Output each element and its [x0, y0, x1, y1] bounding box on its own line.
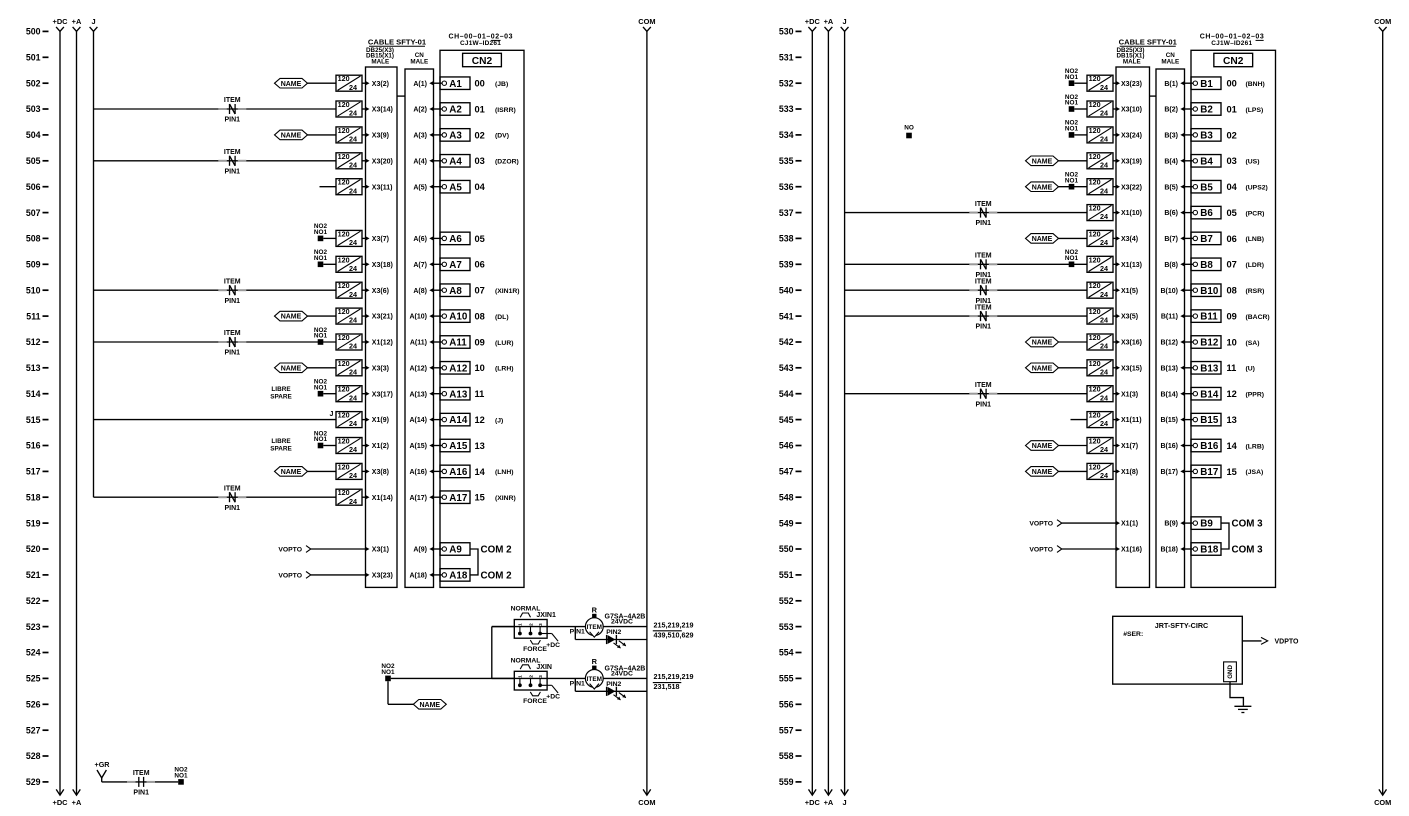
- svg-text:500: 500: [26, 27, 41, 37]
- svg-text:X3(3): X3(3): [372, 365, 389, 372]
- terminal B5 row 536: [1191, 180, 1221, 193]
- wire row 537: B(6) to terminal B6: [1185, 212, 1194, 214]
- svg-text:R: R: [592, 657, 598, 666]
- opto isolator 120/24 row 539: [1087, 255, 1113, 273]
- wire row 541: bus J to isolator: [845, 315, 1087, 317]
- svg-text:(LUR): (LUR): [495, 340, 514, 347]
- svg-text:548: 548: [779, 492, 794, 502]
- terminal A16 row 517: [440, 465, 470, 478]
- opto isolator 120/24 row 512: [336, 333, 362, 351]
- svg-text:120: 120: [338, 307, 350, 316]
- source flag VOPTO row 521: [278, 572, 310, 580]
- svg-text:B17: B17: [1200, 467, 1219, 478]
- pin A(13) row 514: [409, 391, 433, 398]
- opto isolator 120/24 row 509: [336, 255, 362, 273]
- wire row 502: A(1) to terminal A1: [434, 82, 443, 84]
- wire JXIN1 to relay coil (circuit 1): [492, 626, 586, 628]
- svg-text:X1(16): X1(16): [1121, 547, 1142, 554]
- opto isolator 120/24 row 532: [1087, 74, 1113, 92]
- link square NO2/NO1 (JXIN feed): [381, 663, 395, 681]
- svg-text:B5: B5: [1200, 182, 1213, 193]
- svg-text:509: 509: [26, 260, 41, 270]
- terminal B15 row 545: [1191, 413, 1221, 426]
- svg-text:ITEM: ITEM: [224, 330, 241, 337]
- power bus +A (left half): [72, 17, 82, 807]
- svg-text:120: 120: [338, 385, 350, 394]
- svg-text:(DL): (DL): [495, 314, 509, 321]
- opto isolator 120/24 row 503: [336, 100, 362, 118]
- wire row 545: isolator to X1(11): [1113, 419, 1116, 421]
- svg-text:537: 537: [779, 208, 794, 218]
- svg-text:NO1: NO1: [1065, 255, 1079, 262]
- wire row 542: NAME flag to isolator: [1059, 341, 1088, 343]
- svg-text:A13: A13: [449, 389, 468, 400]
- pin B(14) row 544: [1160, 391, 1184, 398]
- signal flag NAME (JXIN feed): [413, 700, 446, 710]
- svg-text:24: 24: [1100, 264, 1108, 273]
- svg-text:B(3): B(3): [1164, 133, 1178, 140]
- svg-text:A(18): A(18): [409, 573, 427, 580]
- svg-text:X3(14): X3(14): [372, 107, 393, 114]
- pin B(10) row 540: [1160, 288, 1184, 295]
- wire row 540: isolator to X1(5): [1113, 289, 1116, 291]
- svg-text:120: 120: [1089, 178, 1101, 187]
- signal flag NAME row 547: [1026, 467, 1059, 477]
- svg-text:08: 08: [475, 312, 485, 322]
- link square NO2/NO1 row 508: [314, 223, 328, 241]
- svg-text:550: 550: [779, 544, 794, 554]
- svg-text:24: 24: [349, 160, 357, 169]
- svg-text:24: 24: [1100, 83, 1108, 92]
- svg-text:559: 559: [779, 777, 794, 787]
- svg-text:439,510,629: 439,510,629: [654, 630, 694, 639]
- opto isolator 120/24 row 538: [1087, 229, 1113, 247]
- svg-text:B7: B7: [1200, 234, 1213, 245]
- svg-text:ITEM: ITEM: [975, 253, 992, 260]
- svg-text:X1(14): X1(14): [372, 495, 393, 502]
- svg-text:B(14): B(14): [1160, 391, 1178, 398]
- wire row 535: isolator to X3(19): [1113, 160, 1116, 162]
- svg-text:B(5): B(5): [1164, 184, 1178, 191]
- svg-text:24: 24: [349, 290, 357, 299]
- link square NO2/NO1 row 532: [1065, 68, 1079, 86]
- wire row 513: A(12) to terminal A12: [434, 367, 443, 369]
- svg-text:ITEM: ITEM: [224, 97, 241, 104]
- terminal B10 row 540: [1191, 284, 1221, 297]
- svg-text:X3(9): X3(9): [372, 133, 389, 140]
- svg-text:COM: COM: [1374, 798, 1391, 807]
- wire row 534: square to isolator: [1074, 134, 1087, 136]
- svg-text:24: 24: [349, 135, 357, 144]
- svg-text:120: 120: [1089, 411, 1101, 420]
- pin A(7) row 509: [413, 262, 433, 269]
- wire row 509: A(7) to terminal A7: [434, 263, 443, 265]
- svg-text:JXIN: JXIN: [536, 664, 552, 671]
- terminal A7 row 509: [440, 258, 470, 271]
- svg-text:ITEM: ITEM: [224, 149, 241, 156]
- svg-text:X3(5): X3(5): [1121, 314, 1138, 321]
- svg-text:555: 555: [779, 674, 794, 684]
- COM net vertical line (left half): [638, 17, 655, 807]
- link square NO2/NO1 row 534: [1065, 120, 1079, 138]
- svg-text:+A: +A: [824, 798, 834, 807]
- svg-text:515: 515: [26, 415, 41, 425]
- wire row 513: NAME flag to isolator: [308, 367, 337, 369]
- wire row 513: isolator to X3(3): [362, 367, 366, 369]
- svg-text:B(16): B(16): [1160, 443, 1178, 450]
- wire row 512: isolator to X1(12): [362, 341, 366, 343]
- wire row 537: bus J to isolator: [845, 212, 1087, 214]
- pin A(6) row 508: [413, 236, 433, 243]
- terminal B18 row 550: [1191, 543, 1221, 556]
- contact ITEM/PIN1 row 540: [969, 278, 997, 304]
- source flag VOPTO row 549: [1029, 520, 1061, 528]
- svg-text:558: 558: [779, 751, 794, 761]
- wire row 544: B(14) to terminal B14: [1185, 393, 1194, 395]
- cable tie between connectors (right half): [1150, 95, 1157, 97]
- svg-text:NAME: NAME: [281, 365, 302, 372]
- contact ITEM/PIN1 row 505: [218, 149, 246, 175]
- pin B(8) row 539: [1164, 262, 1184, 269]
- svg-text:516: 516: [26, 441, 41, 451]
- svg-text:+DC: +DC: [53, 798, 69, 807]
- signal flag NAME row 536: [1026, 182, 1059, 192]
- terminal A10 row 511: [440, 310, 470, 323]
- svg-text:PIN1: PIN1: [225, 168, 241, 175]
- svg-text:NO1: NO1: [1065, 100, 1079, 107]
- svg-text:120: 120: [1089, 437, 1101, 446]
- wire row 546: isolator to X1(7): [1113, 445, 1116, 447]
- contact ITEM/PIN1 row 503: [218, 97, 246, 123]
- svg-text:A(2): A(2): [413, 107, 427, 114]
- svg-text:X3(6): X3(6): [372, 288, 389, 295]
- svg-text:557: 557: [779, 725, 794, 735]
- svg-text:24: 24: [1100, 238, 1108, 247]
- svg-text:+GR: +GR: [95, 760, 111, 769]
- svg-text:10: 10: [1227, 337, 1237, 347]
- svg-text:NAME: NAME: [1032, 158, 1053, 165]
- svg-text:B(18): B(18): [1160, 547, 1178, 554]
- svg-text:(PPR): (PPR): [1246, 392, 1265, 399]
- contact ITEM/PIN1 row 518: [218, 485, 246, 511]
- svg-text:24: 24: [1100, 212, 1108, 221]
- svg-text:24: 24: [349, 393, 357, 402]
- module CJ1W-ID261 body (right half): [1191, 50, 1276, 587]
- pin B(17) row 547: [1160, 469, 1184, 476]
- svg-text:#SER:: #SER:: [1123, 631, 1143, 638]
- svg-text:NO: NO: [904, 124, 914, 131]
- svg-text:J: J: [843, 17, 847, 26]
- wire row 505: bus J to isolator: [94, 160, 337, 162]
- terminal B17 row 547: [1191, 465, 1221, 478]
- wire row 512: bus J to isolator: [94, 341, 337, 343]
- svg-text:B(17): B(17): [1160, 469, 1178, 476]
- svg-text:(LNH): (LNH): [495, 469, 514, 476]
- pin B(4) row 535: [1164, 158, 1184, 165]
- svg-text:502: 502: [26, 78, 41, 88]
- svg-text:529: 529: [26, 777, 41, 787]
- pin B(12) row 542: [1160, 340, 1184, 347]
- svg-text:VDPTO: VDPTO: [1275, 638, 1300, 645]
- svg-text:X3(22): X3(22): [1121, 184, 1142, 191]
- svg-text:A(3): A(3): [413, 133, 427, 140]
- connector body CN MALE (left half): [405, 69, 434, 587]
- svg-text:(LDR): (LDR): [1246, 262, 1265, 269]
- pin X3(14) row 503: [365, 107, 393, 114]
- svg-text:120: 120: [1089, 74, 1101, 83]
- svg-text:2: 2: [528, 675, 533, 678]
- wire row 541: isolator to X3(5): [1113, 315, 1116, 317]
- svg-text:COM 3: COM 3: [1232, 519, 1264, 530]
- svg-text:551: 551: [779, 570, 794, 580]
- svg-text:07: 07: [1227, 260, 1237, 270]
- signal flag NAME row 535: [1026, 156, 1059, 166]
- pin X3(7) row 508: [365, 236, 389, 243]
- terminal A12 row 513: [440, 362, 470, 375]
- wire row 515: A(14) to terminal A14: [434, 419, 443, 421]
- svg-text:COM: COM: [638, 798, 655, 807]
- pin B(18) row 550: [1160, 547, 1184, 554]
- svg-text:506: 506: [26, 182, 41, 192]
- svg-text:NAME: NAME: [1032, 365, 1053, 372]
- svg-text:SPARE: SPARE: [270, 394, 292, 401]
- wire row 546: NAME flag to isolator: [1059, 445, 1088, 447]
- opto isolator 120/24 row 513: [336, 359, 362, 377]
- svg-text:B(7): B(7): [1164, 236, 1178, 243]
- wire row 532: isolator to X3(23): [1113, 82, 1116, 84]
- wire row 504: isolator to X3(9): [362, 134, 366, 136]
- svg-text:A(12): A(12): [409, 365, 427, 372]
- svg-text:11: 11: [1227, 363, 1237, 373]
- pin B(16) row 546: [1160, 443, 1184, 450]
- svg-text:X3(20): X3(20): [372, 158, 393, 165]
- svg-text:A15: A15: [449, 441, 468, 452]
- svg-text:542: 542: [779, 337, 794, 347]
- svg-text:24: 24: [349, 367, 357, 376]
- wire junction vertical: [491, 627, 493, 679]
- svg-text:X1(10): X1(10): [1121, 210, 1142, 217]
- wire row 512: A(11) to terminal A11: [434, 341, 443, 343]
- svg-text:VOPTO: VOPTO: [278, 547, 302, 554]
- pin A(12) row 513: [409, 365, 433, 372]
- terminal B4 row 535: [1191, 155, 1221, 168]
- svg-text:PIN1: PIN1: [570, 680, 585, 687]
- svg-text:(LRB): (LRB): [1246, 443, 1265, 450]
- connector JXIN (circuit 2): [511, 657, 561, 704]
- svg-text:COM 3: COM 3: [1232, 545, 1264, 556]
- svg-text:24: 24: [349, 83, 357, 92]
- svg-text:553: 553: [779, 622, 794, 632]
- svg-text:X1(9): X1(9): [372, 417, 389, 424]
- svg-text:531: 531: [779, 53, 794, 63]
- svg-text:X1(8): X1(8): [1121, 469, 1138, 476]
- opto isolator 120/24 row 505: [336, 152, 362, 170]
- pin A(10) row 511: [409, 314, 433, 321]
- pin A(16) row 517: [409, 469, 433, 476]
- pin X3(5) row 541: [1116, 314, 1138, 321]
- svg-text:COM: COM: [1374, 17, 1391, 26]
- svg-text:120: 120: [1089, 333, 1101, 342]
- svg-text:525: 525: [26, 674, 41, 684]
- wire row 549: VOPTO to X1(1): [1062, 522, 1116, 524]
- svg-text:(DZOR): (DZOR): [495, 159, 519, 166]
- terminal B7 row 538: [1191, 232, 1221, 245]
- opto isolator 120/24 row 546: [1087, 437, 1113, 455]
- terminal A6 row 508: [440, 232, 470, 245]
- terminal A2 row 503: [440, 103, 470, 116]
- svg-text:NAME: NAME: [1032, 184, 1053, 191]
- svg-text:B14: B14: [1200, 389, 1219, 400]
- svg-text:B(9): B(9): [1164, 521, 1178, 528]
- pin X1(7) row 546: [1116, 443, 1138, 450]
- wire row 534: isolator to X3(24): [1113, 134, 1116, 136]
- svg-text:NO1: NO1: [1065, 126, 1079, 133]
- svg-text:527: 527: [26, 725, 41, 735]
- pin X1(12) row 512: [365, 340, 393, 347]
- svg-text:B(2): B(2): [1164, 107, 1178, 114]
- terminal A4 row 505: [440, 155, 470, 168]
- svg-text:120: 120: [338, 462, 350, 471]
- svg-text:(DV): (DV): [495, 133, 509, 140]
- wire row 547: isolator to X1(8): [1113, 470, 1116, 472]
- svg-text:A5: A5: [449, 182, 462, 193]
- wire row 505: isolator to X3(20): [362, 160, 366, 162]
- wire lower branch to COM (circuit 2): [574, 678, 576, 691]
- svg-text:526: 526: [26, 700, 41, 710]
- terminal A13 row 514: [440, 387, 470, 400]
- svg-text:B3: B3: [1200, 131, 1213, 142]
- wire row 515: isolator to X1(9): [362, 419, 366, 421]
- svg-text:X3(1): X3(1): [372, 547, 389, 554]
- svg-text:120: 120: [338, 229, 350, 238]
- wire row 517: A(16) to terminal A16: [434, 470, 443, 472]
- svg-text:PIN1: PIN1: [225, 117, 241, 124]
- svg-text:MALE: MALE: [1123, 59, 1141, 66]
- svg-text:546: 546: [779, 441, 794, 451]
- svg-text:120: 120: [1089, 359, 1101, 368]
- wire row 504: A(3) to terminal A3: [434, 134, 443, 136]
- svg-text:NO1: NO1: [1065, 74, 1079, 81]
- wire row 538: B(7) to terminal B7: [1185, 237, 1194, 239]
- svg-text:X1(7): X1(7): [1121, 443, 1138, 450]
- link square NO2/NO1 row 512: [314, 327, 328, 345]
- opto isolator 120/24 row 541: [1087, 307, 1113, 325]
- svg-text:(U): (U): [1246, 366, 1255, 373]
- svg-text:LIBRE: LIBRE: [271, 386, 291, 393]
- svg-text:539: 539: [779, 260, 794, 270]
- svg-text:A2: A2: [449, 105, 462, 116]
- wire stub row 506: [320, 186, 337, 188]
- svg-text:A(8): A(8): [413, 288, 427, 295]
- svg-text:LIBRE: LIBRE: [271, 438, 291, 445]
- svg-text:(UPS2): (UPS2): [1246, 185, 1268, 192]
- opto isolator 120/24 row 518: [336, 488, 362, 506]
- svg-text:(LPS): (LPS): [1246, 107, 1264, 114]
- terminal B16 row 546: [1191, 439, 1221, 452]
- connector CABLE SFTY-01 header (right half): [1117, 38, 1178, 66]
- wire row 516: A(15) to terminal A15: [434, 445, 443, 447]
- wire row 503: isolator to X3(14): [362, 108, 366, 110]
- svg-text:A(9): A(9): [413, 547, 427, 554]
- link square NO2/NO1 row 509: [314, 249, 328, 267]
- svg-text:NAME: NAME: [281, 314, 302, 321]
- wire row 510: A(8) to terminal A8: [434, 289, 443, 291]
- pin X3(10) row 533: [1116, 107, 1142, 114]
- svg-text:A10: A10: [449, 312, 468, 323]
- svg-text:507: 507: [26, 208, 41, 218]
- wire row 538: NAME flag to isolator: [1059, 237, 1088, 239]
- svg-text:(LRH): (LRH): [495, 366, 514, 373]
- wire row 511: isolator to X3(21): [362, 315, 366, 317]
- contact ITEM/PIN1 row 510: [218, 278, 246, 304]
- pin X3(9) row 504: [365, 133, 389, 140]
- svg-text:541: 541: [779, 311, 794, 321]
- opto isolator 120/24 row 533: [1087, 100, 1113, 118]
- svg-text:536: 536: [779, 182, 794, 192]
- svg-text:B10: B10: [1200, 286, 1219, 297]
- svg-text:2: 2: [528, 623, 533, 626]
- svg-text:NAME: NAME: [281, 469, 302, 476]
- wire row 541: B(11) to terminal B11: [1185, 315, 1194, 317]
- wire row 518: isolator to X1(14): [362, 496, 366, 498]
- terminal A15 row 516: [440, 439, 470, 452]
- svg-text:120: 120: [1089, 204, 1101, 213]
- source flag VOPTO row 520: [278, 546, 310, 554]
- wire row 547: B(17) to terminal B17: [1185, 470, 1194, 472]
- svg-text:215,219,219: 215,219,219: [654, 672, 694, 681]
- link square NO2/NO1 row 533: [1065, 94, 1079, 112]
- pin X1(5) row 540: [1116, 288, 1138, 295]
- pin A(18) row 521: [409, 573, 433, 580]
- pin A(14) row 515: [409, 417, 433, 424]
- svg-text:120: 120: [338, 255, 350, 264]
- wire row 510: isolator to X3(6): [362, 289, 366, 291]
- wire row 505: A(4) to terminal A4: [434, 160, 443, 162]
- pin X3(8) row 517: [365, 469, 389, 476]
- connector CABLE SFTY-01 header (left half): [366, 38, 427, 66]
- svg-text:X3(21): X3(21): [372, 314, 393, 321]
- connector body DB25/DB15 MALE (left half): [366, 67, 398, 587]
- svg-text:523: 523: [26, 622, 41, 632]
- terminal A11 row 512: [440, 336, 470, 349]
- svg-text:(RSR): (RSR): [1246, 288, 1265, 295]
- svg-text:505: 505: [26, 156, 41, 166]
- wire row 533: square to isolator: [1074, 108, 1087, 110]
- svg-text:120: 120: [338, 359, 350, 368]
- svg-text:B2: B2: [1200, 105, 1213, 116]
- svg-text:A17: A17: [449, 493, 468, 504]
- terminal A9 row 520: [440, 543, 470, 556]
- svg-text:24: 24: [1100, 419, 1108, 428]
- pin X3(17) row 514: [365, 391, 393, 398]
- terminal B11 row 541: [1191, 310, 1221, 323]
- svg-text:PIN1: PIN1: [976, 220, 992, 227]
- wire row 546: B(16) to terminal B16: [1185, 445, 1194, 447]
- svg-text:+DC: +DC: [53, 17, 69, 26]
- pin A(15) row 516: [409, 443, 433, 450]
- terminal B1 row 532: [1191, 77, 1221, 90]
- svg-text:X1(13): X1(13): [1121, 262, 1142, 269]
- pin X3(15) row 543: [1116, 365, 1142, 372]
- svg-text:NO1: NO1: [314, 436, 328, 443]
- pin X1(2) row 516: [365, 443, 389, 450]
- svg-text:NO1: NO1: [314, 229, 328, 236]
- svg-text:512: 512: [26, 337, 41, 347]
- contact ITEM/PIN1 row 544: [969, 382, 997, 408]
- svg-text:PIN2: PIN2: [606, 681, 621, 688]
- terminal B2 row 533: [1191, 103, 1221, 116]
- svg-text:24: 24: [1100, 342, 1108, 351]
